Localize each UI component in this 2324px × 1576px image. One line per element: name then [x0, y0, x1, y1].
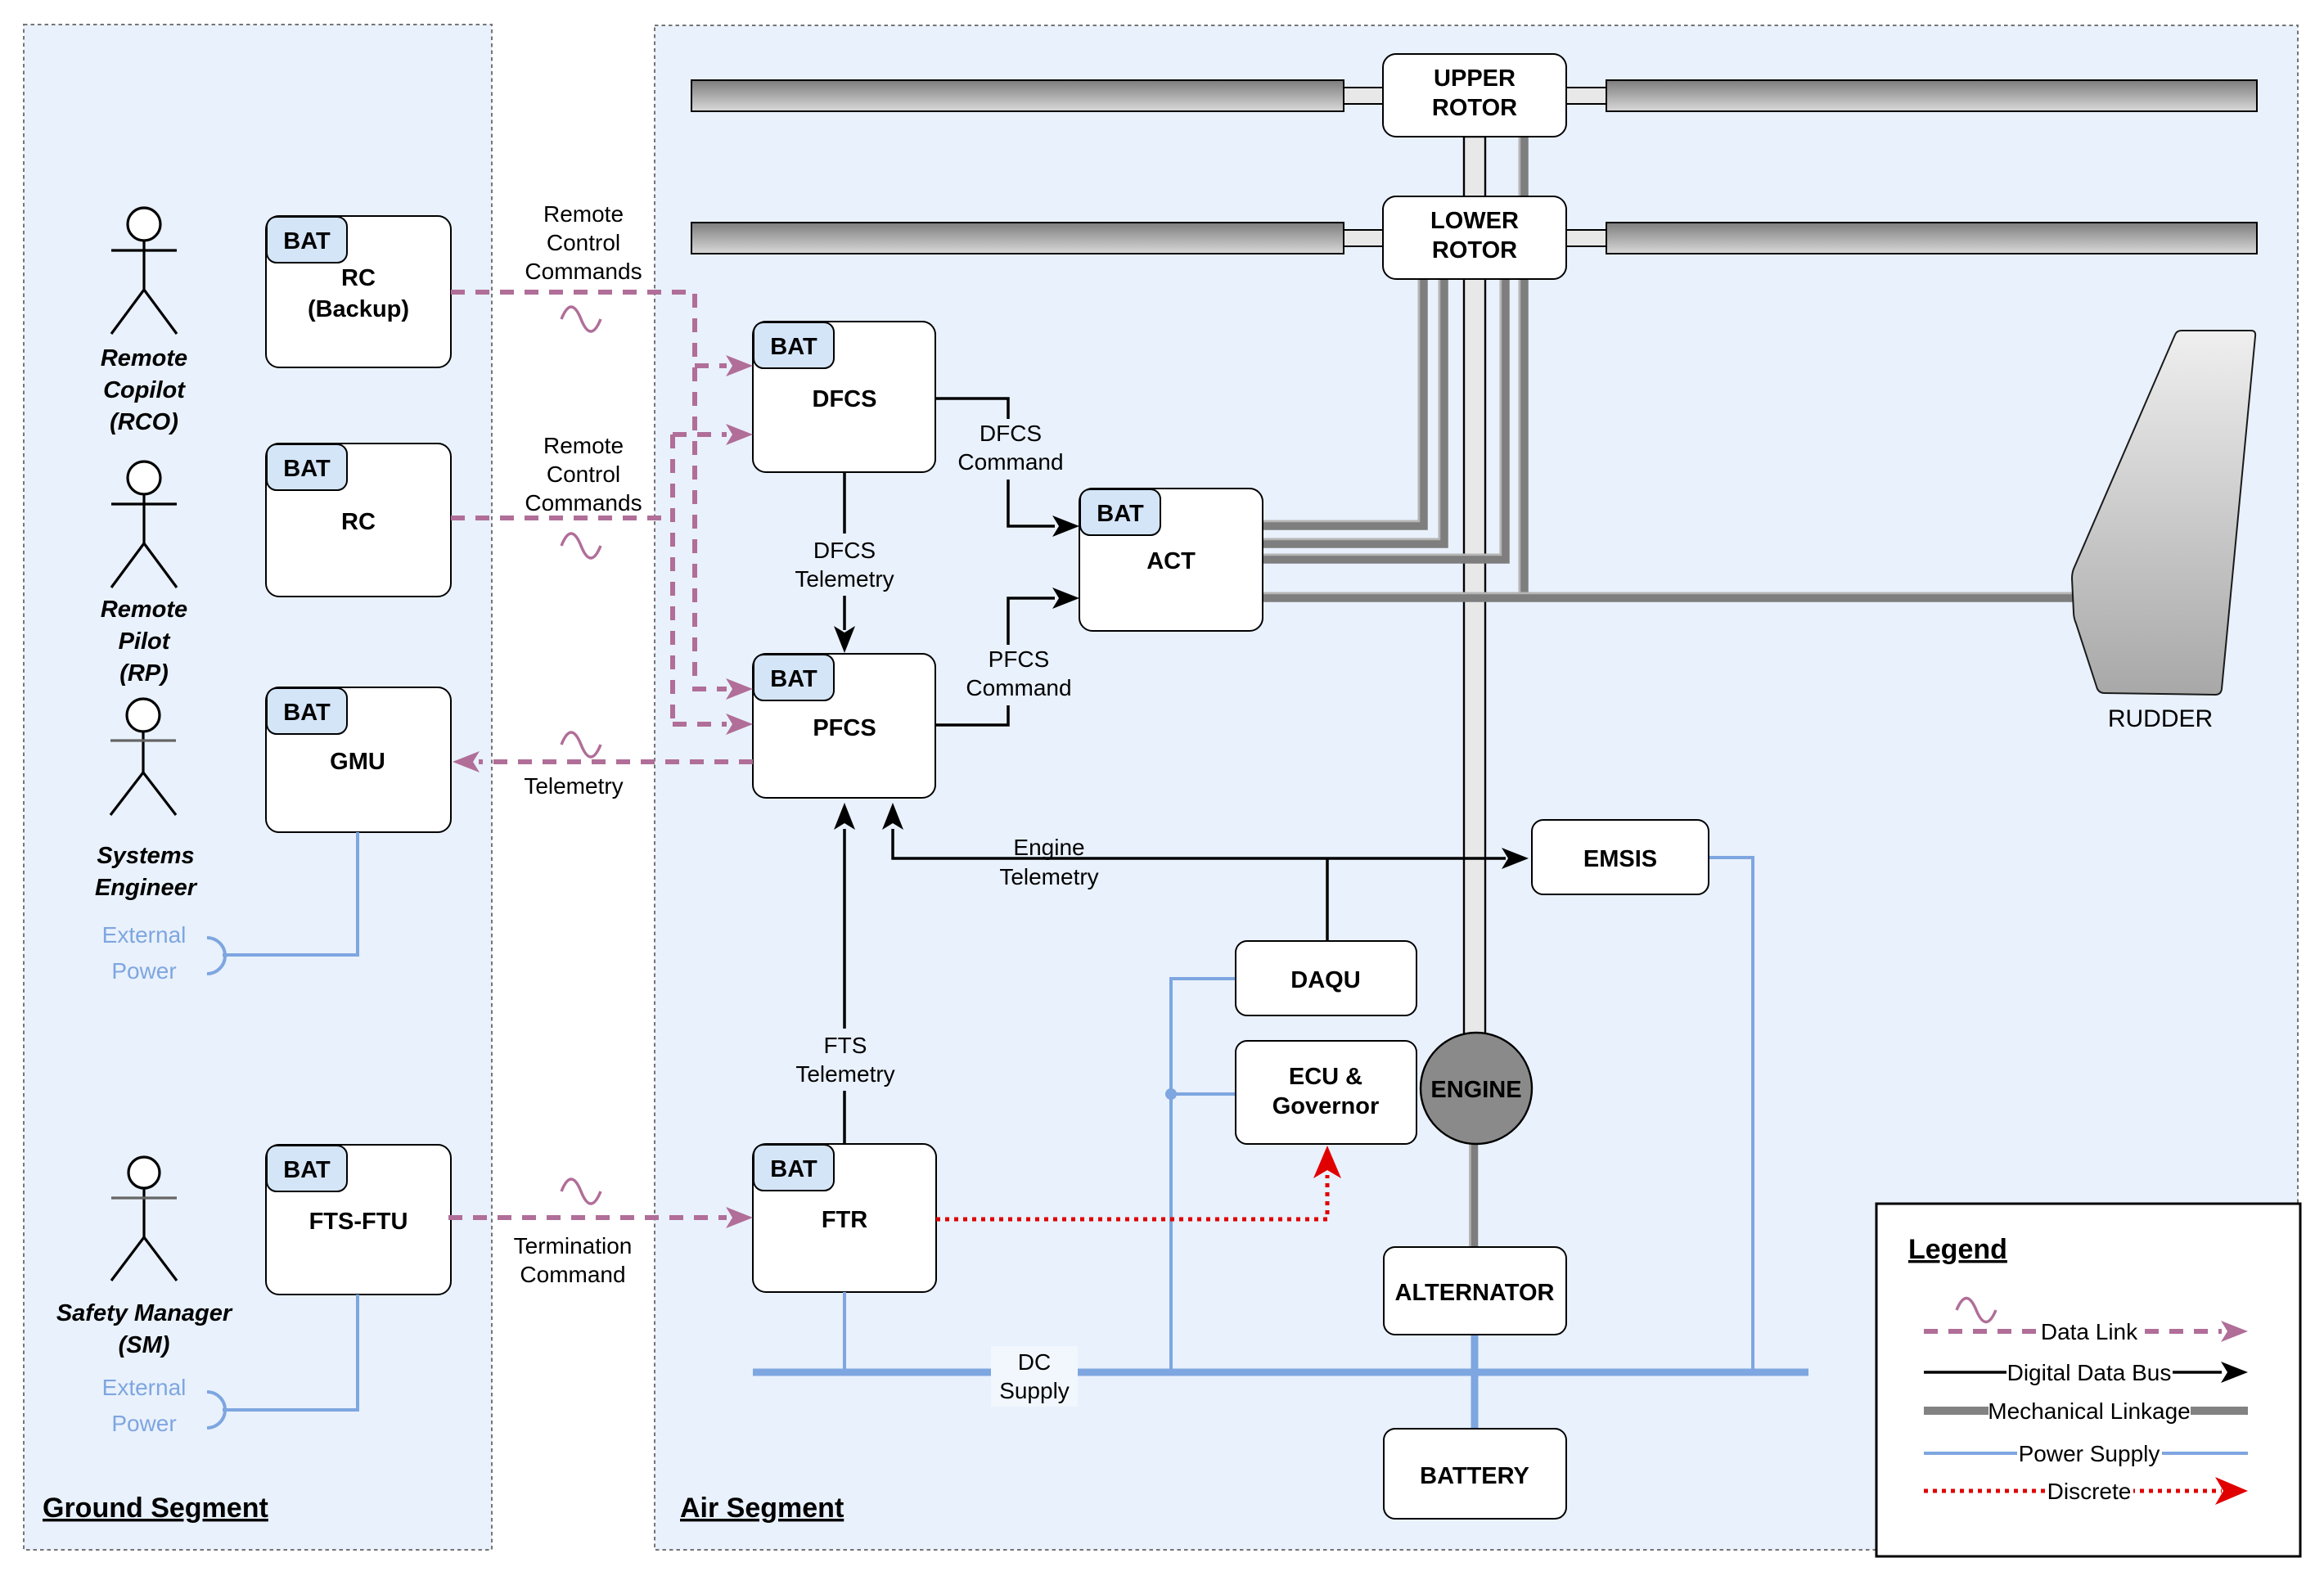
svg-text:Copilot: Copilot — [103, 377, 186, 403]
block ALTERNATOR — [1384, 1247, 1566, 1335]
svg-text:(Backup): (Backup) — [308, 296, 409, 322]
rudder fin — [2072, 331, 2255, 732]
data link RC to DFCS and PFCS — [451, 435, 727, 724]
svg-text:ALTERNATOR: ALTERNATOR — [1395, 1280, 1555, 1306]
antenna squiggle 1 — [561, 307, 601, 331]
svg-text:ENGINE: ENGINE — [1430, 1077, 1521, 1103]
svg-text:BAT: BAT — [770, 334, 817, 360]
svg-text:Telemetry: Telemetry — [999, 864, 1098, 889]
wire engine telemetry bus (DAQU to PFCS and EMSIS) — [882, 803, 1529, 941]
antenna squiggle termination — [561, 1179, 601, 1204]
wire PFCS command (PFCS to ACT) — [935, 588, 1079, 725]
BAT tag of PFCS — [754, 655, 834, 700]
DC supply bus — [753, 1369, 1808, 1376]
svg-text:Control: Control — [547, 462, 620, 487]
svg-text:Legend: Legend — [1908, 1234, 2007, 1265]
svg-text:LOWER: LOWER — [1430, 208, 1519, 234]
svg-text:RC: RC — [341, 509, 376, 535]
svg-text:Power: Power — [111, 1411, 176, 1436]
svg-text:Telemetry: Telemetry — [795, 1061, 894, 1087]
svg-text:Remote: Remote — [101, 597, 187, 623]
svg-text:Pilot: Pilot — [119, 628, 171, 655]
svg-text:Termination: Termination — [514, 1233, 633, 1259]
engine to alternator shaft — [1473, 1144, 1475, 1247]
arrowheads data link 1 — [726, 355, 753, 700]
svg-text:ACT: ACT — [1146, 548, 1196, 574]
wire DFCS command (DFCS to ACT) — [935, 399, 1079, 537]
svg-text:Commands: Commands — [525, 259, 642, 284]
power supply alternator drop — [1471, 1335, 1479, 1372]
arrowhead telemetry — [453, 751, 480, 772]
BAT tag of FTS-FTU — [267, 1146, 347, 1191]
block FTR — [753, 1144, 936, 1292]
data link RC (Backup) to DFCS and PFCS — [451, 292, 727, 689]
label Telemetry — [524, 773, 623, 799]
BAT tag of GMU — [267, 688, 347, 734]
svg-text:Supply: Supply — [999, 1378, 1070, 1403]
BAT tag of FTR — [754, 1145, 834, 1191]
BAT tag of DFCS — [754, 322, 834, 368]
svg-text:Systems: Systems — [97, 843, 194, 869]
block ACT — [1079, 489, 1263, 631]
block LOWER ROTOR — [1383, 196, 1566, 279]
mechanical linkage ACT to lower rotor 3 — [1261, 279, 1506, 560]
legend digital data bus row — [1924, 1357, 2248, 1385]
power supply FTS-FTU external — [207, 1295, 358, 1428]
block PFCS — [753, 654, 935, 798]
svg-text:EMSIS: EMSIS — [1583, 846, 1657, 872]
label Remote Control Commands 1 — [525, 201, 642, 284]
svg-text:Data Link: Data Link — [2041, 1319, 2138, 1344]
svg-text:Discrete: Discrete — [2047, 1479, 2132, 1504]
svg-text:ECU &: ECU & — [1289, 1064, 1362, 1090]
svg-text:FTS: FTS — [824, 1033, 867, 1058]
label DC Supply — [991, 1346, 1078, 1407]
svg-text:Power: Power — [111, 958, 176, 984]
svg-text:Command: Command — [520, 1262, 625, 1287]
svg-text:Governor: Governor — [1272, 1093, 1380, 1119]
mechanical linkage ACT to lower rotor 2 — [1261, 279, 1444, 544]
Air Segment container — [655, 25, 2298, 1550]
svg-text:DFCS: DFCS — [813, 538, 876, 563]
block ECU and Governor — [1236, 1041, 1416, 1144]
svg-text:DFCS: DFCS — [813, 386, 877, 412]
label DFCS Command — [949, 419, 1072, 480]
power supply battery drop — [1471, 1372, 1479, 1429]
svg-text:BATTERY: BATTERY — [1420, 1463, 1529, 1489]
block RC — [266, 444, 451, 597]
svg-text:BAT: BAT — [283, 1157, 331, 1183]
data link termination command FTS-FTU to FTR — [448, 1215, 727, 1220]
BAT tag of RC — [267, 444, 347, 490]
svg-text:(SM): (SM) — [119, 1332, 170, 1358]
Legend box — [1876, 1204, 2300, 1556]
svg-text:Commands: Commands — [525, 490, 642, 516]
svg-text:PFCS: PFCS — [813, 715, 876, 741]
block DAQU — [1236, 941, 1416, 1015]
svg-text:BAT: BAT — [770, 666, 817, 692]
legend power supply row — [1924, 1438, 2248, 1466]
block UPPER ROTOR — [1383, 54, 1566, 137]
svg-text:UPPER: UPPER — [1434, 65, 1516, 92]
label DFCS Telemetry — [784, 534, 907, 596]
upper rotor left blade — [691, 80, 1384, 111]
svg-text:External: External — [102, 922, 187, 948]
mechanical linkage ACT to rudder — [1261, 597, 2079, 598]
label External Power (GMU) — [102, 922, 187, 984]
actor Remote Copilot (RCO) — [111, 208, 177, 334]
svg-text:BAT: BAT — [770, 1156, 817, 1182]
svg-text:Command: Command — [966, 675, 1071, 700]
label PFCS Command — [957, 645, 1080, 705]
svg-text:Engine: Engine — [1013, 835, 1084, 860]
power supply DAQU and ECU branch — [1165, 979, 1236, 1372]
svg-text:Engineer: Engineer — [95, 875, 198, 901]
svg-text:Power Supply: Power Supply — [2019, 1441, 2160, 1466]
svg-text:Mechanical Linkage: Mechanical Linkage — [1988, 1398, 2191, 1424]
mechanical linkage upper rotor vertical — [1523, 137, 1525, 598]
svg-text:FTS-FTU: FTS-FTU — [309, 1209, 408, 1235]
svg-text:ROTOR: ROTOR — [1432, 237, 1517, 263]
svg-text:BAT: BAT — [283, 456, 331, 482]
label Remote Copilot (RCO) — [101, 345, 187, 435]
svg-text:PFCS: PFCS — [989, 646, 1050, 672]
label Termination Command — [514, 1233, 633, 1287]
svg-text:Remote: Remote — [543, 433, 624, 458]
svg-text:RUDDER: RUDDER — [2108, 705, 2213, 732]
svg-text:Telemetry: Telemetry — [524, 773, 623, 799]
title Air Segment — [680, 1493, 844, 1524]
block DFCS — [753, 322, 935, 472]
node ENGINE — [1421, 1033, 1532, 1144]
engine shaft — [1464, 137, 1485, 1088]
svg-text:(RCO): (RCO) — [110, 409, 178, 435]
label Remote Control Commands 2 — [525, 433, 642, 516]
svg-text:Remote: Remote — [101, 345, 187, 371]
legend data link row — [1924, 1299, 2248, 1345]
actor Remote Pilot (RP) — [111, 462, 177, 588]
discrete FTR to ECU and Governor — [936, 1146, 1341, 1219]
label Engine Telemetry — [999, 835, 1098, 889]
upper rotor right blade — [1566, 80, 2257, 111]
BAT tag of ACT — [1080, 489, 1160, 535]
wire DFCS telemetry (DFCS to PFCS) — [834, 472, 855, 653]
svg-text:ROTOR: ROTOR — [1432, 95, 1517, 121]
actor Systems Engineer — [110, 699, 176, 815]
block EMSIS — [1532, 820, 1709, 894]
antenna squiggle telemetry — [561, 732, 601, 757]
svg-text:Telemetry: Telemetry — [795, 566, 894, 592]
svg-text:FTR: FTR — [822, 1207, 867, 1233]
block RC (Backup) — [266, 216, 451, 367]
svg-text:BAT: BAT — [1097, 501, 1144, 527]
title Ground Segment — [43, 1493, 268, 1524]
data link telemetry PFCS to GMU — [479, 759, 753, 764]
svg-text:GMU: GMU — [330, 749, 385, 775]
arrowhead termination command — [726, 1207, 753, 1228]
svg-text:Ground Segment: Ground Segment — [43, 1493, 268, 1524]
label Remote Pilot (RP) — [101, 597, 187, 687]
svg-text:Command: Command — [957, 449, 1063, 475]
power supply FTR drop — [843, 1292, 846, 1372]
Ground Segment container — [24, 25, 492, 1550]
legend discrete row — [1924, 1475, 2248, 1505]
svg-text:DFCS: DFCS — [980, 421, 1042, 446]
svg-text:DC: DC — [1018, 1349, 1051, 1375]
block BATTERY — [1384, 1429, 1566, 1519]
legend mechanical linkage row — [1924, 1395, 2248, 1424]
mechanical linkage ACT to lower rotor 1 — [1261, 279, 1424, 526]
svg-text:BAT: BAT — [283, 228, 331, 254]
block FTS-FTU — [266, 1145, 451, 1295]
label Systems Engineer — [95, 843, 198, 901]
label External Power (FTS-FTU) — [102, 1375, 187, 1436]
lower rotor left blade — [691, 223, 1384, 254]
svg-text:Air Segment: Air Segment — [680, 1493, 844, 1524]
actor Safety Manager (SM) — [111, 1157, 177, 1281]
label Safety Manager (SM) — [56, 1300, 233, 1358]
svg-text:Digital Data Bus: Digital Data Bus — [2007, 1360, 2172, 1385]
power supply GMU external — [207, 832, 358, 974]
svg-text:Safety Manager: Safety Manager — [56, 1300, 233, 1326]
svg-text:Control: Control — [547, 230, 620, 255]
block GMU — [266, 687, 451, 832]
svg-text:(RP): (RP) — [119, 660, 169, 687]
arrowheads data link 2 — [726, 424, 753, 735]
svg-text:External: External — [102, 1375, 187, 1400]
svg-text:RC: RC — [341, 265, 376, 291]
label FTS Telemetry — [784, 1029, 907, 1091]
svg-text:DAQU: DAQU — [1290, 967, 1360, 993]
svg-text:Remote: Remote — [543, 201, 624, 227]
power supply EMSIS wire — [1709, 858, 1753, 1372]
lower rotor right blade — [1566, 223, 2257, 254]
antenna squiggle 2 — [561, 534, 601, 558]
wire FTS telemetry (FTR to PFCS) — [834, 803, 855, 1144]
svg-text:BAT: BAT — [283, 700, 331, 726]
BAT tag of RC (Backup) — [267, 217, 347, 263]
